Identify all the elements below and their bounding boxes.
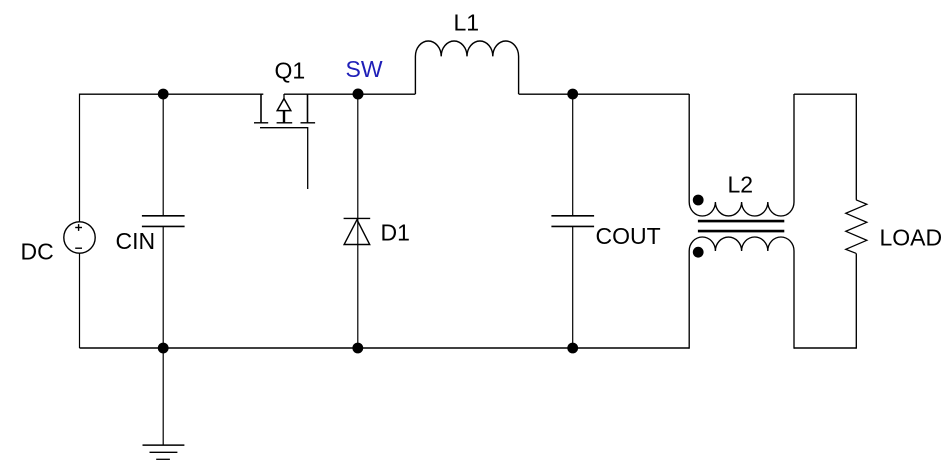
svg-text:L1: L1 [454,10,480,36]
svg-text:D1: D1 [381,219,410,245]
svg-text:SW: SW [346,56,383,82]
svg-text:LOAD: LOAD [880,224,943,250]
svg-text:DC: DC [21,239,54,265]
svg-text:L2: L2 [728,171,754,197]
svg-text:Q1: Q1 [275,57,306,83]
svg-text:CIN: CIN [116,228,156,254]
svg-text:COUT: COUT [596,223,661,249]
